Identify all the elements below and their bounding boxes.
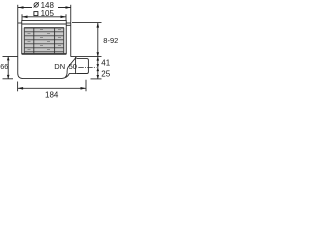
dimension line dia148 — [18, 7, 71, 9]
arrow down 25 — [97, 75, 100, 79]
svg-text:DN: DN — [54, 62, 65, 71]
svg-text:50: 50 — [69, 62, 77, 71]
arrow up 25 — [97, 68, 100, 72]
extension line left of sq105 — [21, 14, 23, 20]
dimension line 8-92 41 25 — [97, 23, 99, 79]
body shoulder extension line — [71, 56, 102, 58]
grate slat line 7 — [24, 50, 63, 53]
diameter symbol — [34, 2, 39, 7]
extension line right of sq105 — [65, 14, 67, 20]
grate texture dashes — [28, 29, 62, 50]
extension line left of dia148 — [17, 5, 19, 23]
arrow up 41 — [97, 57, 100, 61]
grate divider 1 — [33, 28, 35, 54]
grate slat line 4 — [24, 38, 63, 41]
arrow right dia148 — [66, 6, 72, 9]
arrow left 184 — [18, 87, 24, 90]
body outline — [18, 23, 77, 79]
arrow down 66 — [7, 75, 10, 79]
body right lower wall — [75, 57, 77, 74]
flange top right — [66, 22, 71, 24]
grate inner frame right — [63, 28, 65, 54]
grate divider 2 — [54, 28, 56, 54]
grate bottom thick line — [22, 53, 67, 55]
outlet pipe DN50 — [76, 59, 88, 74]
square symbol — [34, 12, 38, 16]
pipe centerline — [78, 67, 96, 69]
body right upper edge — [70, 23, 72, 57]
grate slat line 6 — [24, 46, 63, 49]
extension line bottom of 66 — [3, 78, 14, 80]
arrow down 41 — [97, 64, 100, 68]
grate slat top thick line — [24, 27, 64, 28]
grate slat line 2 — [24, 30, 63, 33]
dimension line 184 — [18, 87, 86, 89]
svg-text:41: 41 — [101, 58, 110, 67]
flange step right — [66, 24, 71, 26]
extension line top of 66 — [3, 56, 18, 58]
svg-text:66: 66 — [0, 62, 8, 71]
arrow up 8-92 — [97, 23, 100, 28]
arrow right 184 — [81, 87, 87, 90]
text mask dia148 — [32, 0, 58, 9]
dimension line 66 — [7, 57, 9, 79]
extension line bottom of 25 — [91, 78, 102, 80]
grate frame — [22, 21, 67, 54]
svg-text:8-92: 8-92 — [103, 36, 118, 45]
extension line right of dia148 — [70, 5, 72, 23]
arrow down 8-92 — [97, 52, 100, 56]
grate inner frame left — [23, 28, 25, 54]
arrow left sq105 — [22, 16, 28, 19]
arrow right sq105 — [61, 16, 67, 19]
grate slat line 3 — [24, 34, 63, 37]
flange top left — [18, 22, 22, 24]
grate slat line 5 — [24, 42, 63, 45]
svg-text:25: 25 — [101, 69, 110, 78]
grate slat fill — [22, 28, 66, 54]
extension line right of 184 — [85, 80, 87, 92]
svg-text:184: 184 — [45, 90, 59, 99]
extension line left of 184 — [17, 82, 19, 92]
arrow left dia148 — [18, 6, 24, 9]
arrow up 66 — [7, 57, 10, 61]
dimension line sq105 — [22, 16, 66, 18]
extension line top of 8-92 — [72, 22, 102, 24]
svg-text:105: 105 — [41, 9, 55, 18]
internal outlet leader line — [65, 57, 76, 77]
